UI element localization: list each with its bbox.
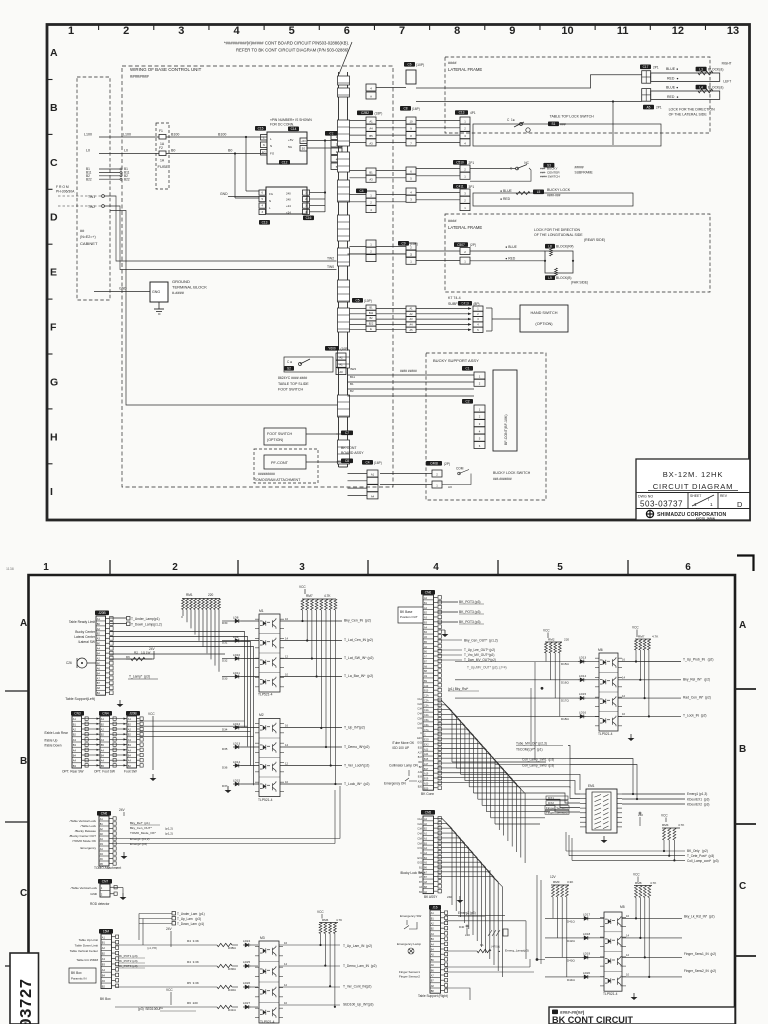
- svg-text:RM2: RM2: [548, 638, 555, 642]
- svg-text:A20: A20: [424, 782, 429, 785]
- svg-text:4.7K: 4.7K: [324, 594, 331, 598]
- svg-text:220: 220: [564, 638, 569, 642]
- svg-text:GND: GND: [119, 287, 127, 291]
- M6 input diodes LD13-16: [455, 656, 599, 721]
- svg-text:EX2: EX2: [417, 862, 422, 865]
- svg-text:D: D: [50, 212, 58, 224]
- svg-text:I: I: [50, 486, 53, 498]
- dashed box lateral frame upper: [445, 57, 710, 133]
- svg-text:Table Init 15MM: Table Init 15MM: [76, 958, 98, 962]
- svg-text:LOCK FOR THE DIRECTION: LOCK FOR THE DIRECTION: [669, 107, 715, 111]
- svg-text:LD26: LD26: [243, 981, 250, 985]
- label T_Lamp: [128, 675, 158, 680]
- svg-text:F2: F2: [159, 146, 163, 150]
- svg-text:Collimator Lamp ON: Collimator Lamp ON: [389, 764, 418, 768]
- svg-text:(REAR SIDE): (REAR SIDE): [584, 238, 605, 242]
- svg-text:/Bucky Center OUT: /Bucky Center OUT: [69, 834, 96, 838]
- svg-text:(16P): (16P): [412, 107, 420, 111]
- page 1 left ruler row letters A-I: [50, 47, 58, 498]
- svg-text:3: 3: [178, 25, 184, 37]
- svg-text:OF THE LATERAL SIDE: OF THE LATERAL SIDE: [669, 112, 708, 116]
- svg-text:C13: C13: [262, 221, 268, 225]
- ground terminal block: [150, 279, 207, 309]
- svg-text:(10P): (10P): [364, 299, 372, 303]
- ladder rungs between strips: [350, 88, 407, 330]
- svg-text:14: 14: [285, 743, 289, 747]
- svg-text:GND: GND: [90, 892, 98, 896]
- svg-text:TbCOM(L)P* (p1): TbCOM(L)P* (p1): [516, 748, 543, 752]
- connector C4 (16P) bottom: [348, 460, 382, 499]
- connector J20B table support left: [65, 611, 113, 702]
- svg-text:BK CONT CIRCUIT: BK CONT CIRCUIT: [552, 1015, 633, 1024]
- svg-text:(10P): (10P): [341, 347, 349, 351]
- svg-text:A10: A10: [424, 685, 429, 688]
- svg-text:LD8: LD8: [233, 616, 239, 620]
- svg-text:6: 6: [685, 562, 691, 573]
- svg-text:D31: D31: [222, 641, 228, 645]
- svg-text:R6 220: R6 220: [187, 1001, 198, 1005]
- svg-text:BK CONT: BK CONT: [341, 446, 357, 450]
- svg-text:TABLE TOP LOCK SWITCH: TABLE TOP LOCK SWITCH: [550, 115, 595, 119]
- svg-text:CABINET: CABINET: [80, 241, 98, 246]
- label lock longitudinal: [534, 228, 605, 242]
- svg-text:CN4: CN4: [102, 712, 109, 716]
- svg-text:2P1: 2P1: [656, 106, 662, 110]
- svg-text:1138: 1138: [6, 567, 14, 571]
- optocoupler array M6 TLP521-4: [595, 648, 622, 736]
- dashed box bucky support assy: [426, 353, 546, 500]
- J16 240 resistor diode: [459, 925, 470, 937]
- svg-text:C4A: C4A: [417, 833, 422, 836]
- svg-text:VCC: VCC: [166, 988, 173, 992]
- svg-text:C: C: [20, 888, 27, 899]
- svg-text:C4A: C4A: [424, 714, 429, 717]
- svg-text:D43Ω: D43Ω: [567, 958, 575, 962]
- shimadzu corporation logo: [646, 510, 726, 520]
- svg-text:FUSE: FUSE: [158, 164, 169, 169]
- svg-text:A19: A19: [418, 771, 423, 774]
- svg-text:C1A: C1A: [424, 695, 429, 698]
- TOMO long wires right: [113, 786, 340, 844]
- wire bundle foot row to M2: [137, 721, 254, 737]
- svg-text:C2: C2: [465, 400, 469, 404]
- tag C8 (16P): [400, 106, 420, 111]
- terminal TW1 and wire: [58, 195, 337, 261]
- svg-text:C: C: [739, 881, 746, 892]
- svg-text:C13: C13: [459, 111, 465, 115]
- svg-text:B2: B2: [350, 389, 354, 393]
- CN6 fan staircase wiring: [438, 700, 526, 863]
- svg-text:R5 3.3K: R5 3.3K: [187, 981, 200, 985]
- svg-text:#####: #####: [575, 166, 584, 170]
- svg-text:LOCK FOR THE DIRECTION: LOCK FOR THE DIRECTION: [534, 228, 580, 232]
- lock circuit right upper: [651, 61, 732, 99]
- svg-text:T_Lat_Cen_IN (p2): T_Lat_Cen_IN (p2): [344, 638, 373, 642]
- svg-text:C8: C8: [345, 459, 349, 463]
- svg-text:#########: #########: [258, 472, 275, 476]
- svg-text:C9: C9: [401, 242, 405, 246]
- svg-text:LATERAL FRAME: LATERAL FRAME: [448, 225, 482, 230]
- CN5 pin name columns: [424, 818, 428, 894]
- svg-text:240: 240: [286, 192, 291, 196]
- wires bus to bucky support: [348, 367, 475, 396]
- svg-text:4: 4: [433, 562, 439, 573]
- svg-text:C2: C2: [329, 132, 333, 136]
- svg-text:A3: A3: [369, 178, 373, 182]
- svg-text:3.3K: 3.3K: [567, 880, 574, 884]
- page 1 top ruler column numbers 1-13: [68, 25, 739, 37]
- page 1 left ruler tick marks: [47, 80, 53, 464]
- CN5 staircase wiring: [438, 819, 503, 978]
- svg-text:BLUE ●: BLUE ●: [666, 67, 678, 71]
- svg-text:Position OUT: Position OUT: [400, 615, 418, 619]
- TOMO left labels: [69, 819, 97, 850]
- svg-text:GROUND: GROUND: [172, 279, 190, 284]
- CN6 pin name column: [424, 597, 429, 790]
- svg-text:D35: D35: [222, 747, 228, 751]
- resistor network RM6 4.7K pullups: [317, 910, 342, 1008]
- svg-text:C3A: C3A: [424, 704, 429, 707]
- svg-text:RIGHT: RIGHT: [722, 61, 732, 65]
- svg-text:B19: B19: [418, 776, 423, 779]
- page 2 right ruler ticks: [735, 689, 756, 956]
- svg-text:D18Ω: D18Ω: [561, 717, 569, 721]
- svg-text:LD9: LD9: [233, 635, 239, 639]
- svg-text:A19: A19: [424, 773, 429, 776]
- svg-text:8624YC #### ####: 8624YC #### ####: [278, 376, 307, 380]
- svg-text:Table Ready Limit: Table Ready Limit: [69, 620, 95, 624]
- wire feeds to M6 from riser bundle: [531, 662, 543, 760]
- svg-text:8: 8: [454, 25, 460, 37]
- svg-text:+24: +24: [286, 204, 291, 208]
- svg-text:TOMO_Mode_OK*: TOMO_Mode_OK*: [130, 831, 157, 835]
- connector CN6 BK connector: [421, 590, 441, 796]
- svg-text:N: N: [269, 199, 271, 203]
- svg-text:FG: FG: [270, 152, 275, 156]
- PF-CONT tomogram attachment: [254, 449, 353, 483]
- svg-text:EX2: EX2: [424, 743, 429, 746]
- table top lock switch circuit: [416, 110, 661, 146]
- resistor network RM4 4.7K: [661, 814, 685, 862]
- svg-text:VCC: VCC: [633, 873, 640, 877]
- svg-text:BLOCK(B): BLOCK(B): [556, 276, 572, 280]
- svg-text:12: 12: [285, 654, 289, 658]
- svg-text:G: G: [50, 376, 58, 388]
- svg-text:D6: D6: [126, 655, 130, 659]
- svg-text:/Table Lock Rear: /Table Lock Rear: [44, 731, 68, 735]
- svg-text:CIRCUIT DIAGRAM: CIRCUIT DIAGRAM: [653, 482, 734, 491]
- svg-text:LD11: LD11: [233, 671, 240, 675]
- svg-text:T_Demo_Lam_IN (p2): T_Demo_Lam_IN (p2): [343, 964, 377, 968]
- svg-text:C3A: C3A: [417, 828, 422, 831]
- M2 output pin numbers and wires: [280, 723, 342, 784]
- svg-text:CN7: CN7: [102, 880, 109, 884]
- svg-text:RM7: RM7: [306, 594, 313, 598]
- svg-text:B5: B5: [369, 134, 373, 138]
- svg-text:C6A: C6A: [417, 722, 422, 725]
- svg-text:12: 12: [672, 25, 684, 37]
- svg-text:C 1●: C 1●: [507, 118, 515, 122]
- svg-text:4.7K: 4.7K: [652, 635, 659, 639]
- svg-text:2P1: 2P1: [653, 65, 659, 69]
- ROD detector connector CN7: [90, 879, 117, 906]
- M5 input diodes LD17-20: [545, 912, 604, 982]
- svg-text:15M: 15M: [103, 930, 110, 934]
- svg-text:F: F: [50, 322, 57, 334]
- svg-text:Table Support(Left): Table Support(Left): [65, 697, 95, 701]
- svg-text:C507: C507: [457, 243, 465, 247]
- svg-text:Emergency ON: Emergency ON: [384, 782, 406, 786]
- page 1 title block: [636, 459, 750, 520]
- svg-text:D: D: [737, 500, 742, 509]
- bus connector segment boxes: [338, 76, 350, 464]
- svg-text:D16Ω: D16Ω: [561, 680, 569, 684]
- svg-text:C7A: C7A: [424, 729, 429, 732]
- svg-text:#### #####: #### #####: [400, 369, 417, 373]
- svg-text:T_Lock_IN* (p2): T_Lock_IN* (p2): [344, 782, 370, 786]
- svg-text:OPT. Rear SW: OPT. Rear SW: [62, 770, 84, 774]
- svg-text:C8: C8: [403, 107, 407, 111]
- svg-text:BK_POT3 (p3): BK_POT3 (p3): [459, 620, 481, 624]
- svg-text:2P1: 2P1: [469, 161, 475, 165]
- M1 output pin numbers: [280, 617, 342, 677]
- svg-text:T_Ver_Lock*(p2): T_Ver_Lock*(p2): [344, 764, 369, 768]
- svg-text:EM1: EM1: [588, 784, 595, 788]
- CN6 ground stub: [438, 630, 449, 637]
- svg-text:REFER TO BK CONT CIRCUIT DIAGR: REFER TO BK CONT CIRCUIT DIAGRAM (P/N 50…: [236, 48, 349, 53]
- svg-text:(470Ω): (470Ω): [491, 945, 500, 949]
- svg-text:4.7K: 4.7K: [650, 881, 657, 885]
- BK box paramtic box: [69, 968, 96, 983]
- svg-text:VCC: VCC: [632, 626, 639, 630]
- svg-text:4.7K: 4.7K: [336, 918, 342, 922]
- connector C507 and lock circuit: [416, 242, 588, 284]
- resistor network RM3 3.3K: [550, 875, 574, 977]
- svg-text:/Table Down: /Table Down: [44, 744, 62, 748]
- svg-text:T_Up_Lee_OUT* (p2): T_Up_Lee_OUT* (p2): [464, 648, 495, 652]
- svg-text:● BLUE: ● BLUE: [500, 189, 513, 193]
- svg-text:SHIMADZU CORPORATION: SHIMADZU CORPORATION: [657, 512, 726, 518]
- svg-text:(8P): (8P): [474, 302, 480, 306]
- input resistors R4 R5 R6: [115, 939, 238, 1009]
- svg-text:A3: A3: [369, 141, 373, 145]
- svg-text:C: C: [420, 852, 422, 855]
- svg-text:TOMO Attachment: TOMO Attachment: [94, 866, 121, 870]
- svg-text:T_Cete_Post* (p3): T_Cete_Post* (p3): [687, 854, 714, 858]
- svg-text:TERMINAL BLOCK: TERMINAL BLOCK: [172, 285, 207, 290]
- svg-text:BK_POT3 (p3): BK_POT3 (p3): [459, 610, 481, 614]
- svg-text:A: A: [370, 94, 372, 98]
- svg-text:K7 74-4: K7 74-4: [448, 296, 461, 300]
- connector C2 (16P): [325, 131, 346, 170]
- svg-text:D40: D40: [459, 925, 465, 929]
- svg-text:(p1,PB): (p1,PB): [147, 946, 157, 950]
- svg-text:L8: L8: [548, 244, 552, 248]
- J16 emerg2 wire: [445, 911, 505, 917]
- foot switch row left labels: [44, 731, 68, 748]
- page 2 top ruler numbers 1-6: [43, 562, 691, 573]
- M6 output wires and labels: [618, 657, 713, 717]
- svg-text:L0: L0: [124, 149, 128, 153]
- svg-text:T_Under_Lam (p1): T_Under_Lam (p1): [177, 912, 205, 916]
- svg-text:PH-306/30A: PH-306/30A: [56, 190, 75, 194]
- svg-text:BK Conn: BK Conn: [421, 792, 434, 796]
- label SED100UP: [138, 1007, 196, 1011]
- svg-text:C12: C12: [282, 161, 288, 165]
- svg-text:OPT. Foot SW: OPT. Foot SW: [94, 770, 116, 774]
- svg-text:(OPTION): (OPTION): [535, 322, 553, 326]
- svg-text:LD12: LD12: [233, 722, 240, 726]
- M3 input diodes LD24-27: [228, 939, 258, 1012]
- svg-text:-03727: -03727: [17, 979, 36, 1024]
- svg-text:T_Up_IN*(p2): T_Up_IN*(p2): [344, 726, 365, 730]
- svg-text:LD18: LD18: [583, 932, 590, 936]
- svg-text:RM8: RM8: [635, 881, 642, 885]
- svg-text:BLOCK(&): BLOCK(&): [708, 67, 724, 71]
- svg-text:LD17: LD17: [583, 912, 590, 916]
- svg-text:Finger_Sens1_IN (p2): Finger_Sens1_IN (p2): [684, 952, 716, 956]
- label: FROM PH-306/30A: [56, 185, 75, 194]
- svg-text:C5A: C5A: [417, 837, 422, 840]
- svg-text:LD14: LD14: [233, 760, 240, 764]
- svg-text:13: 13: [727, 25, 739, 37]
- svg-text:(FAR SIDE): (FAR SIDE): [571, 281, 588, 285]
- svg-text:BK Box: BK Box: [100, 997, 111, 1001]
- svg-text:D32: D32: [222, 659, 228, 663]
- svg-text:E2O: E2O: [424, 739, 429, 742]
- svg-text:T_Up_Prob_IN (p2): T_Up_Prob_IN (p2): [683, 658, 713, 662]
- svg-text:Table Vertical Center: Table Vertical Center: [70, 949, 98, 953]
- svg-text:T_Under_Lamp(p1): T_Under_Lamp(p1): [131, 617, 160, 621]
- svg-text:T_Up_Lam (p3): T_Up_Lam (p3): [177, 917, 201, 921]
- svg-text:503-03737: 503-03737: [640, 500, 683, 509]
- svg-text:CN3: CN3: [74, 712, 81, 716]
- svg-text:LD24: LD24: [243, 939, 250, 943]
- svg-text:B100: B100: [171, 133, 179, 137]
- page 1 top ruler tick marks: [99, 25, 706, 31]
- svg-text:+24: +24: [286, 210, 291, 214]
- svg-text:C: C: [424, 734, 426, 737]
- svg-text:####: ####: [448, 61, 457, 65]
- svg-text:RM3: RM3: [553, 880, 560, 884]
- svg-text:2: 2: [172, 562, 178, 573]
- svg-text:/Tube Move OK: /Tube Move OK: [392, 741, 415, 745]
- svg-text:5G: 5G: [288, 145, 293, 149]
- svg-text:M3: M3: [260, 936, 265, 940]
- svg-text:M1: M1: [259, 609, 264, 613]
- svg-text:12: 12: [626, 953, 630, 957]
- svg-text:16: 16: [622, 657, 626, 661]
- arrow links between foot connectors: [85, 718, 128, 767]
- tag C5 (10P): [352, 298, 372, 303]
- wire L100 -> B100: [84, 129, 265, 146]
- M5 output wires and labels: [622, 914, 716, 977]
- svg-text:A1: A1: [339, 363, 343, 367]
- svg-text:RD: RD: [419, 761, 423, 764]
- svg-text:KDoorEX2 (p3): KDoorEX2 (p3): [687, 803, 709, 807]
- VCC mid low: [166, 988, 173, 1005]
- svg-text:T_Vro_MV_OUT*(p2): T_Vro_MV_OUT*(p2): [464, 653, 494, 657]
- svg-text:C2A: C2A: [424, 699, 429, 702]
- svg-text:EX2: EX2: [417, 742, 422, 745]
- svg-text:B: B: [50, 102, 58, 114]
- svg-text:Finger_Sens2_IN (p2): Finger_Sens2_IN (p2): [684, 969, 716, 973]
- svg-text:C4: C4: [359, 189, 363, 193]
- hand switch option box: [520, 305, 568, 332]
- svg-text:N: N: [270, 144, 272, 148]
- svg-text:S1: S1: [552, 122, 556, 126]
- ground wire GND: [94, 287, 150, 292]
- svg-text:A17: A17: [424, 763, 429, 766]
- svg-text:ROD detector: ROD detector: [90, 902, 109, 906]
- svg-text:B1: B1: [369, 170, 373, 174]
- svg-text:1: 1: [694, 502, 697, 508]
- main vertical bus cable: [339, 72, 348, 467]
- wire L0 -> B0: [86, 146, 265, 163]
- svg-text:LD13: LD13: [579, 656, 586, 660]
- svg-text:D39Ω: D39Ω: [228, 967, 236, 971]
- wires power unit to connector C2: [265, 137, 331, 154]
- svg-text:D36: D36: [222, 766, 228, 770]
- svg-text:Bky_Rel_IN* (p2): Bky_Rel_IN* (p2): [683, 678, 710, 682]
- svg-text:/Table Lock: /Table Lock: [81, 824, 97, 828]
- power unit C13/C16 block 24V: [220, 187, 314, 225]
- wire verticals mid low: [490, 870, 545, 964]
- svg-text:J16: J16: [432, 906, 437, 910]
- svg-text:BOARD ASSY: BOARD ASSY: [341, 451, 364, 455]
- svg-text:BK_POT1 (p3): BK_POT1 (p3): [118, 954, 137, 958]
- svg-text:A: A: [20, 618, 27, 629]
- page 2 top ruler ticks: [110, 560, 628, 575]
- svg-text:14: 14: [622, 676, 626, 680]
- svg-text:14: 14: [285, 636, 289, 640]
- svg-text:BK_POT3 (p3): BK_POT3 (p3): [459, 600, 481, 604]
- svg-text:EX1: EX1: [417, 857, 422, 860]
- svg-text:C: C: [50, 157, 58, 169]
- svg-text:LD20: LD20: [583, 971, 590, 975]
- bus segment tags: [357, 111, 382, 116]
- svg-text:D17Ω: D17Ω: [561, 699, 569, 703]
- connector C9 (10P): [398, 241, 418, 264]
- svg-text:M5: M5: [620, 905, 625, 909]
- svg-text:A17: A17: [418, 751, 423, 754]
- connector C2 in bucky support: [462, 399, 485, 449]
- svg-text:9: 9: [509, 25, 515, 37]
- svg-text:A1: A1: [369, 119, 373, 123]
- svg-text:SUBFRAME: SUBFRAME: [448, 302, 469, 306]
- svg-text:LATERAL FRAME: LATERAL FRAME: [448, 67, 482, 72]
- svg-text:GND: GND: [220, 192, 228, 196]
- svg-text:J20B: J20B: [129, 712, 136, 716]
- J15M left labels: [70, 938, 99, 962]
- label lateral frame lower: [448, 219, 482, 230]
- svg-text:B17: B17: [418, 756, 423, 759]
- lamp labels T_Under_Lamp T_Down_Lamp: [110, 616, 182, 627]
- svg-text:K1: K1: [480, 943, 484, 947]
- svg-text:B0: B0: [171, 149, 175, 153]
- J16 right wires bundle: [445, 921, 538, 1000]
- svg-text:TLP521-4: TLP521-4: [598, 732, 613, 736]
- svg-text:LD16: LD16: [579, 710, 586, 714]
- label Bky_Rst: [448, 687, 479, 691]
- svg-text:16: 16: [285, 617, 289, 621]
- BF-CONT vertical box: [493, 370, 517, 451]
- svg-text:/Bucky Lock Rear: /Bucky Lock Rear: [400, 871, 425, 875]
- svg-text:B15: B15: [418, 747, 423, 750]
- svg-text:Emergency: Emergency: [81, 846, 97, 850]
- svg-text:C ●: C ●: [287, 360, 292, 364]
- svg-text:R4 3.3K: R4 3.3K: [187, 939, 200, 943]
